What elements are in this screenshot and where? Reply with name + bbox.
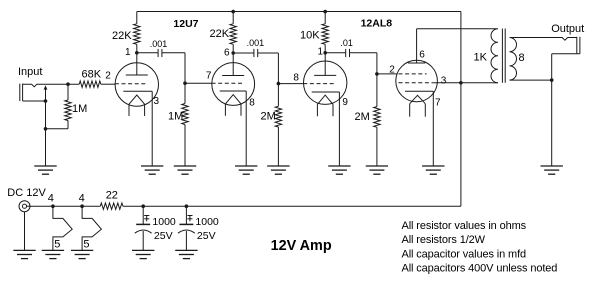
svg-text:1000: 1000 xyxy=(152,216,176,228)
transformer T1 core xyxy=(502,29,505,83)
ground input xyxy=(34,166,56,174)
tube V4 envelope xyxy=(396,60,438,102)
wire C1 to grid V2 xyxy=(185,82,212,84)
tube V4 control grid xyxy=(399,73,427,75)
wire output ground lead xyxy=(551,80,553,166)
tube V2 plate xyxy=(222,53,244,76)
ground V1 cathode xyxy=(141,166,163,174)
svg-text:25V: 25V xyxy=(154,230,173,242)
wire 1M return xyxy=(46,128,69,130)
tube V4 cathode xyxy=(405,90,433,92)
output jack J2 xyxy=(577,37,580,54)
node V1 plate xyxy=(135,51,139,55)
svg-text:All resistors 1/2W: All resistors 1/2W xyxy=(402,234,486,246)
resistor R9 22 xyxy=(100,203,123,209)
wire 12V top rail xyxy=(137,11,461,13)
resistor R3 22K xyxy=(134,12,140,53)
svg-text:2: 2 xyxy=(389,65,395,76)
svg-text:6: 6 xyxy=(419,50,425,61)
svg-text:1000: 1000 xyxy=(195,216,219,228)
wire secondary top xyxy=(510,38,577,41)
wire primary bottom xyxy=(492,82,498,84)
resistor R6 2M xyxy=(275,84,281,166)
svg-text:DC 12V: DC 12V xyxy=(7,187,46,199)
wire secondary bottom xyxy=(510,79,552,81)
wire screen to 12V xyxy=(433,82,492,84)
heater H2 12AL8 xyxy=(82,206,101,250)
svg-text:2M: 2M xyxy=(355,111,370,123)
wire 68K to grid xyxy=(101,83,115,85)
svg-text:All resistor values in ohms: All resistor values in ohms xyxy=(402,220,527,232)
svg-text:22: 22 xyxy=(106,189,118,201)
tube V1 heater xyxy=(129,95,145,116)
tube V4 plate xyxy=(408,29,425,63)
svg-text:Output: Output xyxy=(551,23,584,35)
tube V3 grid xyxy=(303,83,336,85)
node screen 12V xyxy=(459,81,463,85)
svg-text:.01: .01 xyxy=(340,38,353,48)
input jack J1 xyxy=(20,84,45,101)
node input ground junction xyxy=(44,99,48,103)
node V3 plate xyxy=(323,51,327,55)
ground H1 xyxy=(42,250,64,258)
svg-text:Input: Input xyxy=(18,66,42,78)
wire input signal xyxy=(45,83,79,85)
tube V2 heater xyxy=(225,95,241,116)
ground C5 xyxy=(175,250,197,258)
svg-text:3: 3 xyxy=(441,75,447,86)
wire 12V bottom rail right xyxy=(123,205,461,207)
ground C4 xyxy=(132,250,154,258)
svg-text:1K: 1K xyxy=(474,52,488,64)
ground V4 cathode xyxy=(422,166,444,174)
svg-text:All capacitors 400V unless not: All capacitors 400V unless noted xyxy=(402,262,558,274)
svg-text:8: 8 xyxy=(293,72,299,83)
svg-text:3: 3 xyxy=(154,96,160,107)
tube V4 screen grid xyxy=(399,82,434,84)
polarity mark C5 xyxy=(187,216,192,222)
resistor R8 2M xyxy=(374,74,380,166)
polarity mark C4 xyxy=(144,216,149,222)
resistor R7 10K xyxy=(322,12,328,53)
svg-text:8: 8 xyxy=(249,98,255,109)
tube V4 heater xyxy=(410,95,426,116)
node rail 22K xyxy=(231,10,235,14)
svg-text:1: 1 xyxy=(318,46,324,57)
svg-text:8: 8 xyxy=(519,52,525,64)
svg-text:9: 9 xyxy=(342,97,348,108)
svg-text:10K: 10K xyxy=(300,30,320,42)
capacitor C2 .001 xyxy=(233,49,278,84)
capacitor C1 .001 xyxy=(137,49,185,83)
svg-text:.001: .001 xyxy=(247,38,265,48)
tube V3 heater xyxy=(317,95,333,116)
svg-text:7: 7 xyxy=(206,70,212,81)
wire 12V bottom rail left xyxy=(27,205,101,207)
ground DC jack xyxy=(13,250,35,258)
node V3 grid xyxy=(277,82,281,86)
ground V3 cathode xyxy=(328,166,350,174)
ground R4 xyxy=(174,166,196,174)
wire pin3 to ground xyxy=(151,91,153,166)
resistor R2 1M xyxy=(65,84,71,129)
svg-text:5: 5 xyxy=(83,239,89,251)
wire pin7 to ground xyxy=(432,91,434,166)
svg-text:12V Amp: 12V Amp xyxy=(271,238,332,254)
tube V2 grid xyxy=(212,82,244,84)
resistor R4 1M xyxy=(182,83,188,166)
svg-text:1: 1 xyxy=(125,47,131,58)
wire pin9 to ground xyxy=(338,92,340,166)
ground output xyxy=(541,166,563,174)
wire to ground xyxy=(45,101,47,129)
heater H1 12U7 xyxy=(53,206,72,250)
svg-text:5: 5 xyxy=(54,239,60,251)
tube V1 plate xyxy=(126,53,148,75)
svg-text:12U7: 12U7 xyxy=(173,18,198,30)
wire ground lead xyxy=(45,129,47,166)
tube V1 cathode xyxy=(123,90,152,92)
svg-text:2: 2 xyxy=(105,70,111,81)
capacitor C3 .01 xyxy=(325,49,377,74)
transformer T1 secondary xyxy=(510,38,517,81)
svg-text:6: 6 xyxy=(224,48,230,59)
node output ground xyxy=(550,78,554,82)
svg-text:12AL8: 12AL8 xyxy=(361,18,393,30)
svg-text:4: 4 xyxy=(79,193,85,205)
jack sleeve wire xyxy=(23,100,46,102)
node rail 10K xyxy=(323,10,327,14)
ground R6 xyxy=(267,166,289,174)
ground H2 xyxy=(71,250,93,258)
tube V2 envelope xyxy=(212,63,255,106)
wire pin8 to ground xyxy=(245,91,247,166)
ground V2 cathode xyxy=(235,166,257,174)
svg-text:4: 4 xyxy=(48,192,54,204)
node V4 grid xyxy=(375,72,379,76)
svg-text:68K: 68K xyxy=(82,69,102,81)
svg-text:All capacitor values in mfd: All capacitor values in mfd xyxy=(402,248,527,260)
tube V1 envelope xyxy=(115,63,158,106)
node heater 1 tap xyxy=(51,204,55,208)
node V2 grid xyxy=(183,81,187,85)
svg-text:25V: 25V xyxy=(197,230,216,242)
capacitor C5 1000mfd xyxy=(178,206,195,250)
ground R8 xyxy=(366,166,388,174)
tube V2 cathode xyxy=(220,90,247,92)
jack switch contact arrow xyxy=(44,85,48,101)
svg-text:7: 7 xyxy=(435,98,441,109)
resistor R1 68K xyxy=(79,81,101,87)
svg-text:22K: 22K xyxy=(112,30,132,42)
node C4 tap xyxy=(141,204,145,208)
wire output sleeve xyxy=(552,54,580,80)
tube V3 envelope xyxy=(304,61,347,104)
transformer T1 primary xyxy=(417,29,498,83)
svg-text:1M: 1M xyxy=(72,103,87,115)
node V2 plate xyxy=(231,51,235,55)
svg-text:.001: .001 xyxy=(150,39,168,49)
tube V1 grid xyxy=(115,83,148,85)
wire C2 to grid V3 xyxy=(278,83,303,85)
tube V3 plate xyxy=(314,53,336,76)
wire C3 to grid V4 xyxy=(377,73,397,75)
node grid input xyxy=(66,82,70,86)
svg-text:22K: 22K xyxy=(210,28,230,40)
node C5 tap xyxy=(185,204,189,208)
svg-text:1M: 1M xyxy=(168,110,183,122)
resistor R5 22K xyxy=(230,12,236,53)
wire 12V right feed xyxy=(460,12,462,207)
DC power jack J3 xyxy=(19,201,30,251)
node 1M return junction xyxy=(44,127,48,131)
tube V3 cathode xyxy=(312,91,340,93)
capacitor C4 1000mfd xyxy=(135,206,152,250)
svg-text:2M: 2M xyxy=(261,111,276,123)
node heater 2 tap xyxy=(80,204,84,208)
